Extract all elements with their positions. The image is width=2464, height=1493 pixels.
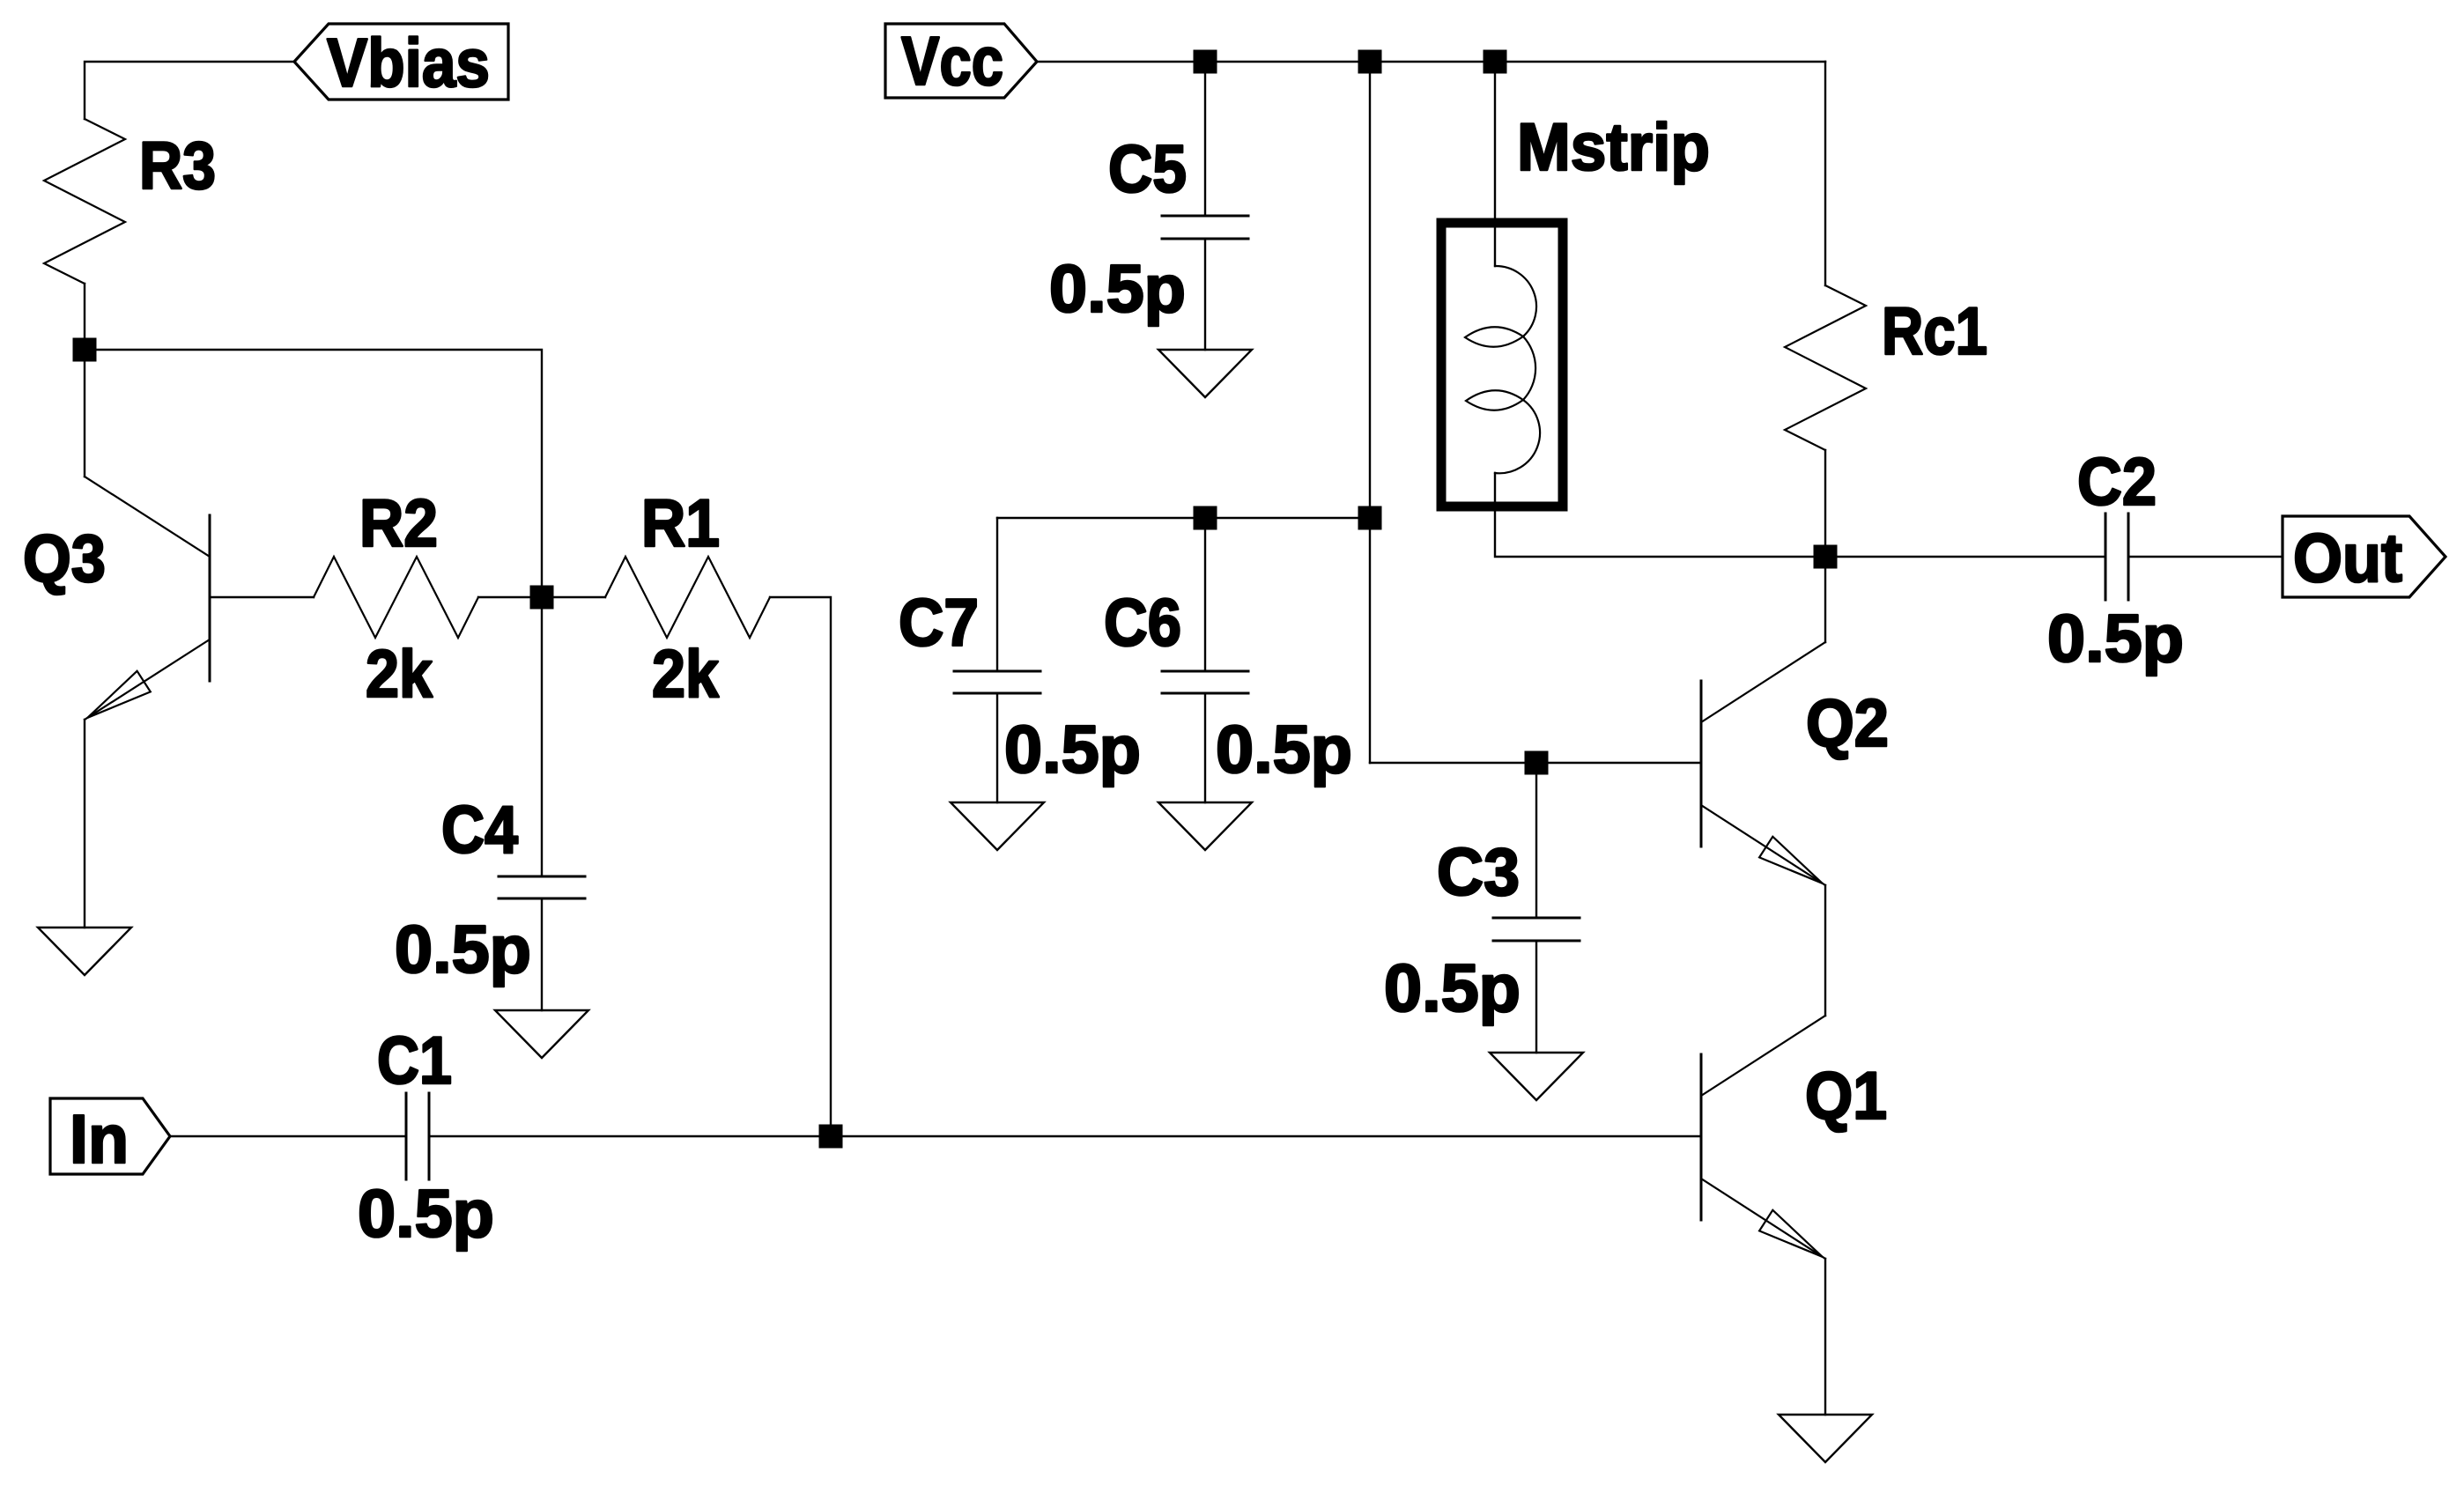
svg-text:C4: C4 bbox=[441, 793, 518, 868]
svg-text:R2: R2 bbox=[359, 486, 438, 561]
inductor Mstrip bbox=[1441, 223, 1563, 506]
resistor R2 bbox=[314, 557, 478, 638]
svg-text:Mstrip: Mstrip bbox=[1517, 110, 1710, 185]
wire Q3 emitter to ground bbox=[84, 720, 85, 928]
svg-text:C1: C1 bbox=[377, 1024, 452, 1098]
wire Q2 collector stub bbox=[1824, 557, 1826, 642]
transistor Q2 bbox=[1701, 642, 1825, 885]
port Vbias bbox=[294, 24, 508, 101]
svg-text:2k: 2k bbox=[652, 637, 720, 712]
svg-text:0.5p: 0.5p bbox=[1049, 252, 1186, 327]
resistor Rc1 bbox=[1785, 285, 1866, 450]
svg-text:C7: C7 bbox=[899, 586, 979, 661]
ground at Q3 emitter bbox=[38, 928, 131, 975]
svg-text:Q2: Q2 bbox=[1806, 686, 1889, 761]
wire C5 to ground bbox=[1204, 239, 1206, 350]
node A junction (R3 / Q3 collector / bias rail) bbox=[73, 338, 97, 362]
wire Q2 emitter to Q1 collector bbox=[1824, 885, 1826, 1016]
svg-text:0.5p: 0.5p bbox=[2047, 602, 2184, 676]
node I junction (rail / mid column) bbox=[1358, 506, 1382, 530]
svg-text:Vcc: Vcc bbox=[901, 22, 1003, 100]
wire C2 to Out port bbox=[2128, 556, 2283, 558]
ground at C4 bbox=[495, 1010, 588, 1058]
port In bbox=[50, 1098, 170, 1178]
svg-text:2k: 2k bbox=[366, 637, 433, 712]
ground at C3 bbox=[1490, 1053, 1583, 1100]
wire C3 to ground bbox=[1535, 941, 1537, 1053]
wire Q3 base lead bbox=[210, 596, 314, 598]
svg-text:R1: R1 bbox=[641, 486, 720, 561]
wire mid column (Vcc down to Q2 base rail) bbox=[1369, 62, 1371, 763]
node D junction (Vcc / C5) bbox=[1194, 50, 1217, 74]
wire Mstrip top bbox=[1494, 62, 1496, 266]
wire Vbias to R3 top bbox=[85, 62, 294, 119]
svg-text:R3: R3 bbox=[139, 129, 216, 203]
wire Q3 collector vertical bbox=[84, 350, 85, 477]
wire Q2 base rail bbox=[1370, 762, 1701, 764]
wire R1 right to In net bbox=[770, 597, 831, 1136]
svg-text:Vbias: Vbias bbox=[327, 24, 490, 101]
wire R3 bottom to node A bbox=[84, 284, 85, 350]
svg-text:Rc1: Rc1 bbox=[1882, 294, 1987, 369]
wire C7 to ground bbox=[996, 693, 998, 802]
wire node G to C2 bbox=[1825, 556, 2105, 558]
svg-text:In: In bbox=[70, 1100, 129, 1178]
node B junction (R2 / R1 / C4 / bias column) bbox=[530, 586, 554, 610]
node E junction (Vcc / mid column) bbox=[1358, 50, 1382, 74]
ground at C7 bbox=[951, 802, 1044, 850]
wire Q1 emitter to ground bbox=[1824, 1259, 1826, 1415]
svg-text:0.5p: 0.5p bbox=[395, 913, 531, 987]
wire C7 top bbox=[996, 518, 998, 671]
wire C4 to ground bbox=[541, 898, 543, 1010]
wire node B to R1 bbox=[542, 596, 605, 598]
svg-text:0.5p: 0.5p bbox=[1216, 713, 1352, 787]
transistor Q3 bbox=[85, 477, 210, 720]
wire node B down to C4 bbox=[541, 597, 543, 876]
wire node A to column bbox=[85, 350, 542, 597]
svg-text:0.5p: 0.5p bbox=[1004, 713, 1141, 787]
svg-text:0.5p: 0.5p bbox=[358, 1177, 494, 1252]
node H junction (rail / C6) bbox=[1194, 506, 1217, 530]
svg-text:Out: Out bbox=[2293, 519, 2402, 596]
wire C5 top bbox=[1204, 62, 1206, 216]
wire In port to C1 bbox=[170, 1135, 406, 1137]
wire C6 to ground bbox=[1204, 693, 1206, 802]
transistor Q1 bbox=[1701, 1016, 1825, 1259]
port Vcc bbox=[885, 22, 1037, 100]
capacitor C3 bbox=[1493, 918, 1580, 941]
svg-text:0.5p: 0.5p bbox=[1384, 951, 1521, 1026]
capacitor C4 bbox=[499, 876, 585, 898]
wire C6 top bbox=[1204, 518, 1206, 671]
port Out bbox=[2283, 516, 2446, 597]
svg-text:C6: C6 bbox=[1104, 586, 1181, 661]
wire Rc1 bottom to node G bbox=[1824, 450, 1826, 557]
capacitor C6 bbox=[1162, 671, 1248, 693]
ground at C6 bbox=[1158, 802, 1252, 850]
capacitor C5 bbox=[1162, 216, 1248, 239]
wire C6/C7 rail bbox=[997, 517, 1370, 519]
node F junction (Vcc / Mstrip) bbox=[1484, 50, 1507, 74]
wire Vcc rail bbox=[1037, 61, 1825, 63]
svg-text:C3: C3 bbox=[1437, 835, 1520, 910]
capacitor C1 bbox=[406, 1093, 429, 1179]
svg-text:C2: C2 bbox=[2077, 445, 2157, 520]
node G junction (Rc1 / Mstrip / Q2 collector / C2) bbox=[1814, 545, 1838, 569]
wire Rc1 top bbox=[1824, 62, 1826, 285]
wire C1 to Q1 base bbox=[429, 1135, 1701, 1137]
wire Mstrip bottom to node G bbox=[1495, 473, 1825, 557]
wire R2 to node B bbox=[478, 596, 542, 598]
node C junction (In wire / R1 column) bbox=[819, 1125, 843, 1149]
ground at Q1 emitter bbox=[1779, 1415, 1872, 1462]
capacitor C2 bbox=[2105, 514, 2128, 600]
svg-text:C5: C5 bbox=[1108, 132, 1187, 207]
svg-text:Q3: Q3 bbox=[23, 521, 106, 596]
capacitor C7 bbox=[954, 671, 1040, 693]
resistor R1 bbox=[605, 557, 770, 638]
node J junction (base rail / C3) bbox=[1525, 751, 1549, 775]
ground at C5 bbox=[1158, 350, 1252, 397]
resistor R3 bbox=[44, 119, 125, 284]
svg-text:Q1: Q1 bbox=[1805, 1059, 1887, 1134]
wire C3 top bbox=[1535, 763, 1537, 918]
